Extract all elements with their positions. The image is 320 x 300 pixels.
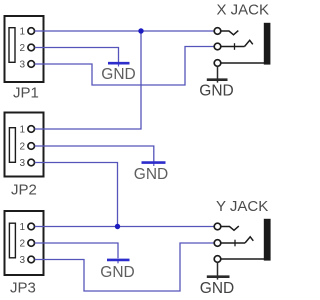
ground GND at JP2.2: [134, 163, 168, 183]
wire JP3.2 to ground: [35, 243, 118, 258]
svg-text:X JACK: X JACK: [217, 2, 270, 19]
junction node at JP1.1 wire: [138, 28, 143, 33]
ground GND at Y jack sleeve: [200, 262, 234, 297]
JP1 pin 1: [19, 26, 34, 37]
connector X jack sleeve terminal: [214, 60, 264, 67]
svg-text:JP2: JP2: [11, 182, 37, 199]
svg-text:3: 3: [19, 158, 25, 169]
ground GND at JP3.2: [100, 260, 134, 281]
JP1 pin 3: [19, 59, 34, 70]
svg-text:Y JACK: Y JACK: [216, 198, 268, 215]
svg-text:GND: GND: [100, 264, 134, 281]
svg-text:2: 2: [19, 238, 25, 249]
svg-text:GND: GND: [199, 82, 233, 99]
svg-text:1: 1: [19, 26, 25, 37]
wire JP1.1 to X jack switch contact: [35, 30, 215, 32]
connector Y jack sleeve terminal: [214, 256, 264, 263]
wire JP1.3 to X jack tip contact: [35, 47, 215, 86]
connector X jack switch terminal: [214, 28, 238, 35]
wire JP2.2 to ground: [35, 146, 154, 162]
svg-text:3: 3: [19, 255, 25, 266]
wire JP1.2 to ground: [35, 48, 119, 64]
svg-text:2: 2: [19, 43, 25, 54]
svg-text:1: 1: [19, 124, 25, 135]
svg-text:1: 1: [19, 222, 25, 233]
Y jack body bar: [264, 219, 271, 261]
connector JP1 body: [5, 16, 44, 82]
ground GND at JP1.2: [101, 63, 135, 83]
JP3 pin 2: [19, 238, 34, 249]
JP2 pin 2: [19, 141, 34, 152]
JP3 pin 3: [19, 255, 34, 266]
junction node at JP3.1 wire: [115, 224, 120, 229]
connector JP2 body: [5, 113, 44, 177]
connector X jack tip terminal: [214, 40, 253, 50]
JP2 pin 3: [19, 158, 34, 169]
ground GND at X jack sleeve: [199, 66, 233, 99]
wire JP3.1 to Y jack switch contact: [35, 226, 215, 228]
wire JP2.3 down to JP3.1 junction: [35, 163, 118, 227]
svg-text:GND: GND: [101, 66, 135, 83]
connector Y jack tip terminal: [214, 237, 253, 247]
svg-text:GND: GND: [200, 280, 234, 297]
wire JP3.3 to Y jack tip contact: [35, 243, 215, 291]
connector JP3 body: [5, 211, 44, 275]
JP2 pin 1: [19, 124, 34, 135]
JP3 pin 1: [19, 222, 34, 233]
svg-text:3: 3: [19, 59, 25, 70]
connector Y jack switch terminal: [214, 223, 239, 230]
wire junction down to JP2.1: [35, 31, 141, 129]
svg-text:GND: GND: [134, 166, 168, 183]
svg-text:2: 2: [19, 141, 25, 152]
svg-text:JP1: JP1: [13, 85, 39, 102]
svg-text:JP3: JP3: [10, 280, 36, 297]
JP1 pin 2: [19, 43, 34, 54]
X jack body bar: [264, 23, 271, 65]
